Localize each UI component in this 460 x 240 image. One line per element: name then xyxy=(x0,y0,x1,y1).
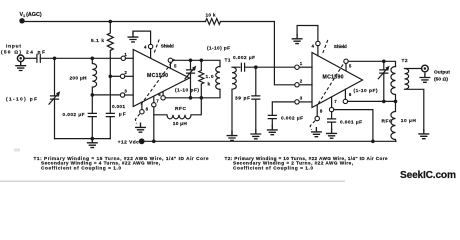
pin 2 U2 xyxy=(295,83,299,87)
pin 2 U1 xyxy=(120,74,124,78)
wire pin3 U1 xyxy=(92,94,120,96)
pin 3 U1 xyxy=(120,93,124,97)
pin 8 U1 xyxy=(140,110,144,114)
pin 6 U2 xyxy=(343,99,347,103)
node input/L1 junction xyxy=(91,57,95,61)
svg-text:8: 8 xyxy=(320,109,323,114)
capacitor C3 0.002 uF xyxy=(88,95,96,139)
wire tank1 top xyxy=(173,60,221,66)
wire tank2 bottom xyxy=(348,100,396,102)
svg-text:Shield: Shield xyxy=(161,44,174,50)
wire shield dash U1 bottom xyxy=(135,114,140,124)
wire shield dash U2 bottom xyxy=(310,121,315,130)
ground input jack xyxy=(16,62,26,71)
svg-text:7: 7 xyxy=(334,99,337,104)
node pin7 bus junction xyxy=(152,140,156,144)
ground shield U2 xyxy=(312,128,322,137)
svg-text:10 μH: 10 μH xyxy=(173,121,188,127)
svg-text:4: 4 xyxy=(144,44,147,49)
svg-text:7: 7 xyxy=(156,99,159,104)
ground C10 xyxy=(327,129,337,138)
pin 1 U1 xyxy=(121,56,125,60)
svg-text:2: 2 xyxy=(124,70,127,75)
wire tank2 top xyxy=(348,61,395,66)
svg-text:3: 3 xyxy=(124,89,127,94)
node L1/pin3 junction xyxy=(91,93,95,97)
svg-text:0.001 μF: 0.001 μF xyxy=(340,120,362,126)
svg-text:1: 1 xyxy=(300,61,303,66)
pin 5 U1 xyxy=(168,58,172,62)
svg-text:39 pF: 39 pF xyxy=(235,95,250,101)
input connector J1 xyxy=(17,55,24,62)
svg-text:(1-10 pF): (1-10 pF) xyxy=(354,88,378,94)
node bus/ground junction xyxy=(91,137,95,141)
svg-text:Output: Output xyxy=(434,69,450,75)
ground T1 secondary xyxy=(227,131,237,140)
wire AGC to pin 2 of U2 xyxy=(221,22,295,85)
capacitor C6 0.002 uF interstage xyxy=(241,63,244,71)
svg-text:5: 5 xyxy=(349,63,352,68)
svg-text:5.1 k: 5.1 k xyxy=(91,38,104,44)
op-amp U2 MC1590 triangle xyxy=(312,53,363,108)
svg-text:1: 1 xyxy=(124,52,127,57)
transformer T2 primary xyxy=(391,67,396,102)
transformer T1 primary xyxy=(216,67,220,90)
svg-text:0.001: 0.001 xyxy=(112,104,125,110)
svg-text:+12 Vdc: +12 Vdc xyxy=(118,139,139,145)
svg-text:MC1590: MC1590 xyxy=(147,73,168,79)
ground shield U1 xyxy=(136,123,146,132)
ground pin4 U1 xyxy=(132,31,134,33)
pin 5 U2 xyxy=(344,59,348,63)
svg-text:4: 4 xyxy=(312,43,315,48)
capacitor C9 variable tank2 xyxy=(380,61,388,101)
node interstage junction xyxy=(254,65,258,69)
transformer T1 secondary xyxy=(232,67,240,135)
svg-text:0.002 μF: 0.002 μF xyxy=(233,55,255,61)
svg-text:μF: μF xyxy=(119,111,126,117)
svg-text:0.002 μF: 0.002 μF xyxy=(63,112,85,118)
wire shield dash U1 top xyxy=(154,38,160,53)
resistor R2 10k xyxy=(206,19,221,25)
svg-text:Shield: Shield xyxy=(334,44,347,50)
wire pin2 U1 xyxy=(110,75,120,77)
svg-text:(50 Ω): (50 Ω) xyxy=(1,49,21,55)
svg-text:RFC: RFC xyxy=(175,106,187,112)
svg-text:T2: T2 xyxy=(402,58,408,64)
pin 4 U2 xyxy=(316,41,320,45)
capacitor C10 0.001 uF xyxy=(328,112,336,130)
resistor R3 1.0k xyxy=(199,60,204,98)
capacitor C1 24 pF xyxy=(37,54,40,62)
wire U2 internal shield dashed xyxy=(318,60,345,103)
ground pin4 U2 xyxy=(292,35,302,44)
svg-text:(1-10) pF: (1-10) pF xyxy=(6,96,37,102)
pin 8 U2 xyxy=(315,116,319,120)
wire shield dash U2 top xyxy=(323,39,329,53)
svg-text:T1: T1 xyxy=(225,57,231,63)
capacitor C4 0.001 uF xyxy=(106,76,114,138)
svg-text:V1(AGC): V1(AGC) xyxy=(20,12,42,18)
ground bus left xyxy=(88,139,98,148)
output connector J2 xyxy=(422,65,429,72)
node AGC/5.1k junction xyxy=(109,20,113,24)
capacitor C7 39 pF xyxy=(252,67,260,130)
pin 1 U2 xyxy=(295,65,299,69)
wire U1 internal shield dashed xyxy=(141,59,174,105)
svg-text:SeekIC.com: SeekIC.com xyxy=(400,170,456,181)
ground C7 xyxy=(251,130,261,139)
svg-text:10 μH: 10 μH xyxy=(401,118,417,124)
resistor R1 5.1k xyxy=(107,22,113,75)
inductor RFC1 10 uH xyxy=(154,98,202,119)
inductor RFC2 10 uH xyxy=(391,101,396,141)
capacitor C8 0.002 uF xyxy=(268,115,276,125)
svg-text:5: 5 xyxy=(174,63,177,68)
pin 4 U1 xyxy=(148,44,152,48)
pin 7 U2 xyxy=(329,107,333,111)
svg-text:(1-10) pF: (1-10) pF xyxy=(207,45,230,51)
capacitor C5 variable tank1 xyxy=(187,60,195,98)
pin 3 U2 xyxy=(295,100,299,104)
svg-text:RFC: RFC xyxy=(382,118,394,124)
wire ground bus left xyxy=(55,138,111,140)
scan artifact bottom streak xyxy=(0,181,345,182)
wire AGC top line xyxy=(22,21,206,23)
inductor L1 200 uH xyxy=(92,58,96,95)
svg-text:0.002 μF: 0.002 μF xyxy=(281,116,303,122)
wire +12V bus xyxy=(142,140,396,142)
wire input to 24pF xyxy=(24,57,36,59)
svg-text:3: 3 xyxy=(300,96,303,101)
svg-text:k: k xyxy=(208,81,211,87)
ground C8 xyxy=(268,126,278,135)
svg-text:Input: Input xyxy=(6,44,21,50)
pin 6 U1 xyxy=(161,96,165,100)
ground T2 secondary xyxy=(419,130,429,139)
wire 24pF to pin 1 of U1 xyxy=(40,57,121,59)
svg-text:24 pF: 24 pF xyxy=(26,49,45,55)
node input/C2 junction xyxy=(53,57,57,61)
svg-text:8: 8 xyxy=(146,107,149,112)
node V1 AGC terminal xyxy=(19,18,24,23)
wire pin3 U2 to C8 xyxy=(272,102,295,116)
pin 7 U1 xyxy=(152,103,156,107)
op-amp U1 MC1590 triangle xyxy=(133,50,189,107)
transformer T2 secondary xyxy=(405,69,424,130)
svg-text:6: 6 xyxy=(349,92,352,97)
wire pin7 U2 to bus xyxy=(334,110,373,142)
wire C6 to pin1 U2 xyxy=(245,66,295,68)
node +12Vdc terminal xyxy=(139,138,145,144)
svg-text:Coefficient of Coupling ≈ 1.0: Coefficient of Coupling ≈ 1.0 xyxy=(233,166,313,171)
svg-text:Coefficient of Coupling ≈ 1.0: Coefficient of Coupling ≈ 1.0 xyxy=(41,166,121,171)
svg-text:1.0: 1.0 xyxy=(206,74,214,80)
svg-text:10 k: 10 k xyxy=(206,13,216,19)
ground output jack xyxy=(420,73,430,82)
wire tank1 bottom xyxy=(165,89,220,98)
capacitor C2 variable (1-10) pF xyxy=(51,58,59,138)
svg-text:(1-10 pF): (1-10 pF) xyxy=(175,88,199,94)
svg-text:(50 Ω): (50 Ω) xyxy=(434,77,448,83)
svg-text:200 μH: 200 μH xyxy=(70,76,88,82)
svg-text:2: 2 xyxy=(300,79,303,84)
